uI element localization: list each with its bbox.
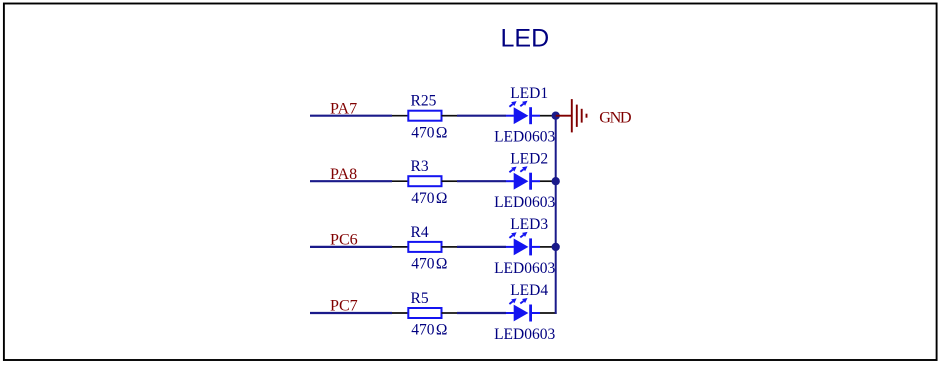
wire LED1 to GND bus — [540, 115, 553, 117]
svg-text:LED0603: LED0603 — [494, 326, 555, 343]
svg-text:470 Ω: 470 Ω — [411, 322, 447, 339]
svg-text:LED0603: LED0603 — [494, 260, 555, 277]
junction node LED1/bus — [552, 112, 560, 120]
wire net PC7 segment — [310, 312, 392, 314]
LED LED3 anode pin — [506, 246, 514, 248]
wire net PC6 segment — [310, 246, 392, 248]
resistor R4 pin 2 — [442, 246, 458, 248]
svg-text:R5: R5 — [411, 290, 429, 307]
LED LED4 symbol — [509, 298, 532, 322]
LED LED4 cathode pin — [532, 312, 540, 314]
svg-text:R4: R4 — [411, 224, 429, 241]
wire net PA7 segment — [310, 115, 392, 117]
resistor R3 pin 1 — [392, 180, 409, 182]
resistor R5 body — [408, 308, 441, 318]
wire LED3 to GND bus — [540, 246, 553, 248]
LED LED4 anode pin — [506, 312, 514, 314]
svg-text:R3: R3 — [411, 158, 429, 175]
svg-text:GND: GND — [599, 109, 632, 127]
LED LED3 cathode pin — [532, 246, 540, 248]
resistor R4 pin 1 — [392, 246, 409, 248]
svg-text:LED4: LED4 — [510, 282, 548, 299]
svg-text:R25: R25 — [411, 93, 437, 110]
resistor R25 pin 1 — [392, 115, 409, 117]
resistor R5 pin 2 — [442, 312, 458, 314]
wire LED2 to GND bus — [540, 180, 553, 182]
resistor R3 body — [408, 176, 441, 186]
LED LED1 anode pin — [506, 115, 514, 117]
wire GND bus vertical — [555, 116, 557, 314]
resistor R3 pin 2 — [442, 180, 458, 182]
svg-text:470 Ω: 470 Ω — [411, 190, 447, 207]
svg-text:470 Ω: 470 Ω — [411, 256, 447, 273]
svg-text:LED3: LED3 — [510, 216, 548, 233]
resistor R25 body — [408, 111, 441, 121]
LED LED1 symbol — [509, 101, 532, 125]
resistor R5 pin 1 — [392, 312, 409, 314]
svg-text:LED: LED — [501, 24, 550, 52]
LED LED1 cathode pin — [532, 115, 540, 117]
wire R5 to LED4 — [457, 312, 506, 314]
wire net PA8 segment — [310, 180, 392, 182]
svg-text:LED0603: LED0603 — [494, 194, 555, 211]
svg-text:470 Ω: 470 Ω — [411, 124, 447, 141]
LED LED2 anode pin — [506, 180, 514, 182]
resistor R4 body — [408, 242, 441, 252]
LED LED3 symbol — [509, 232, 532, 256]
wire LED4 to GND bus — [540, 312, 557, 314]
svg-text:LED2: LED2 — [510, 150, 548, 167]
wire R4 to LED3 — [457, 246, 506, 248]
svg-text:LED0603: LED0603 — [494, 129, 555, 146]
wire R3 to LED2 — [457, 180, 506, 182]
resistor R25 pin 2 — [442, 115, 458, 117]
junction node LED2/bus — [552, 177, 560, 185]
svg-text:LED1: LED1 — [510, 85, 548, 102]
ground GND symbol — [556, 99, 587, 132]
LED LED2 cathode pin — [532, 180, 540, 182]
wire R25 to LED1 — [457, 115, 506, 117]
LED LED2 symbol — [509, 166, 532, 190]
junction node LED3/bus — [552, 243, 560, 251]
